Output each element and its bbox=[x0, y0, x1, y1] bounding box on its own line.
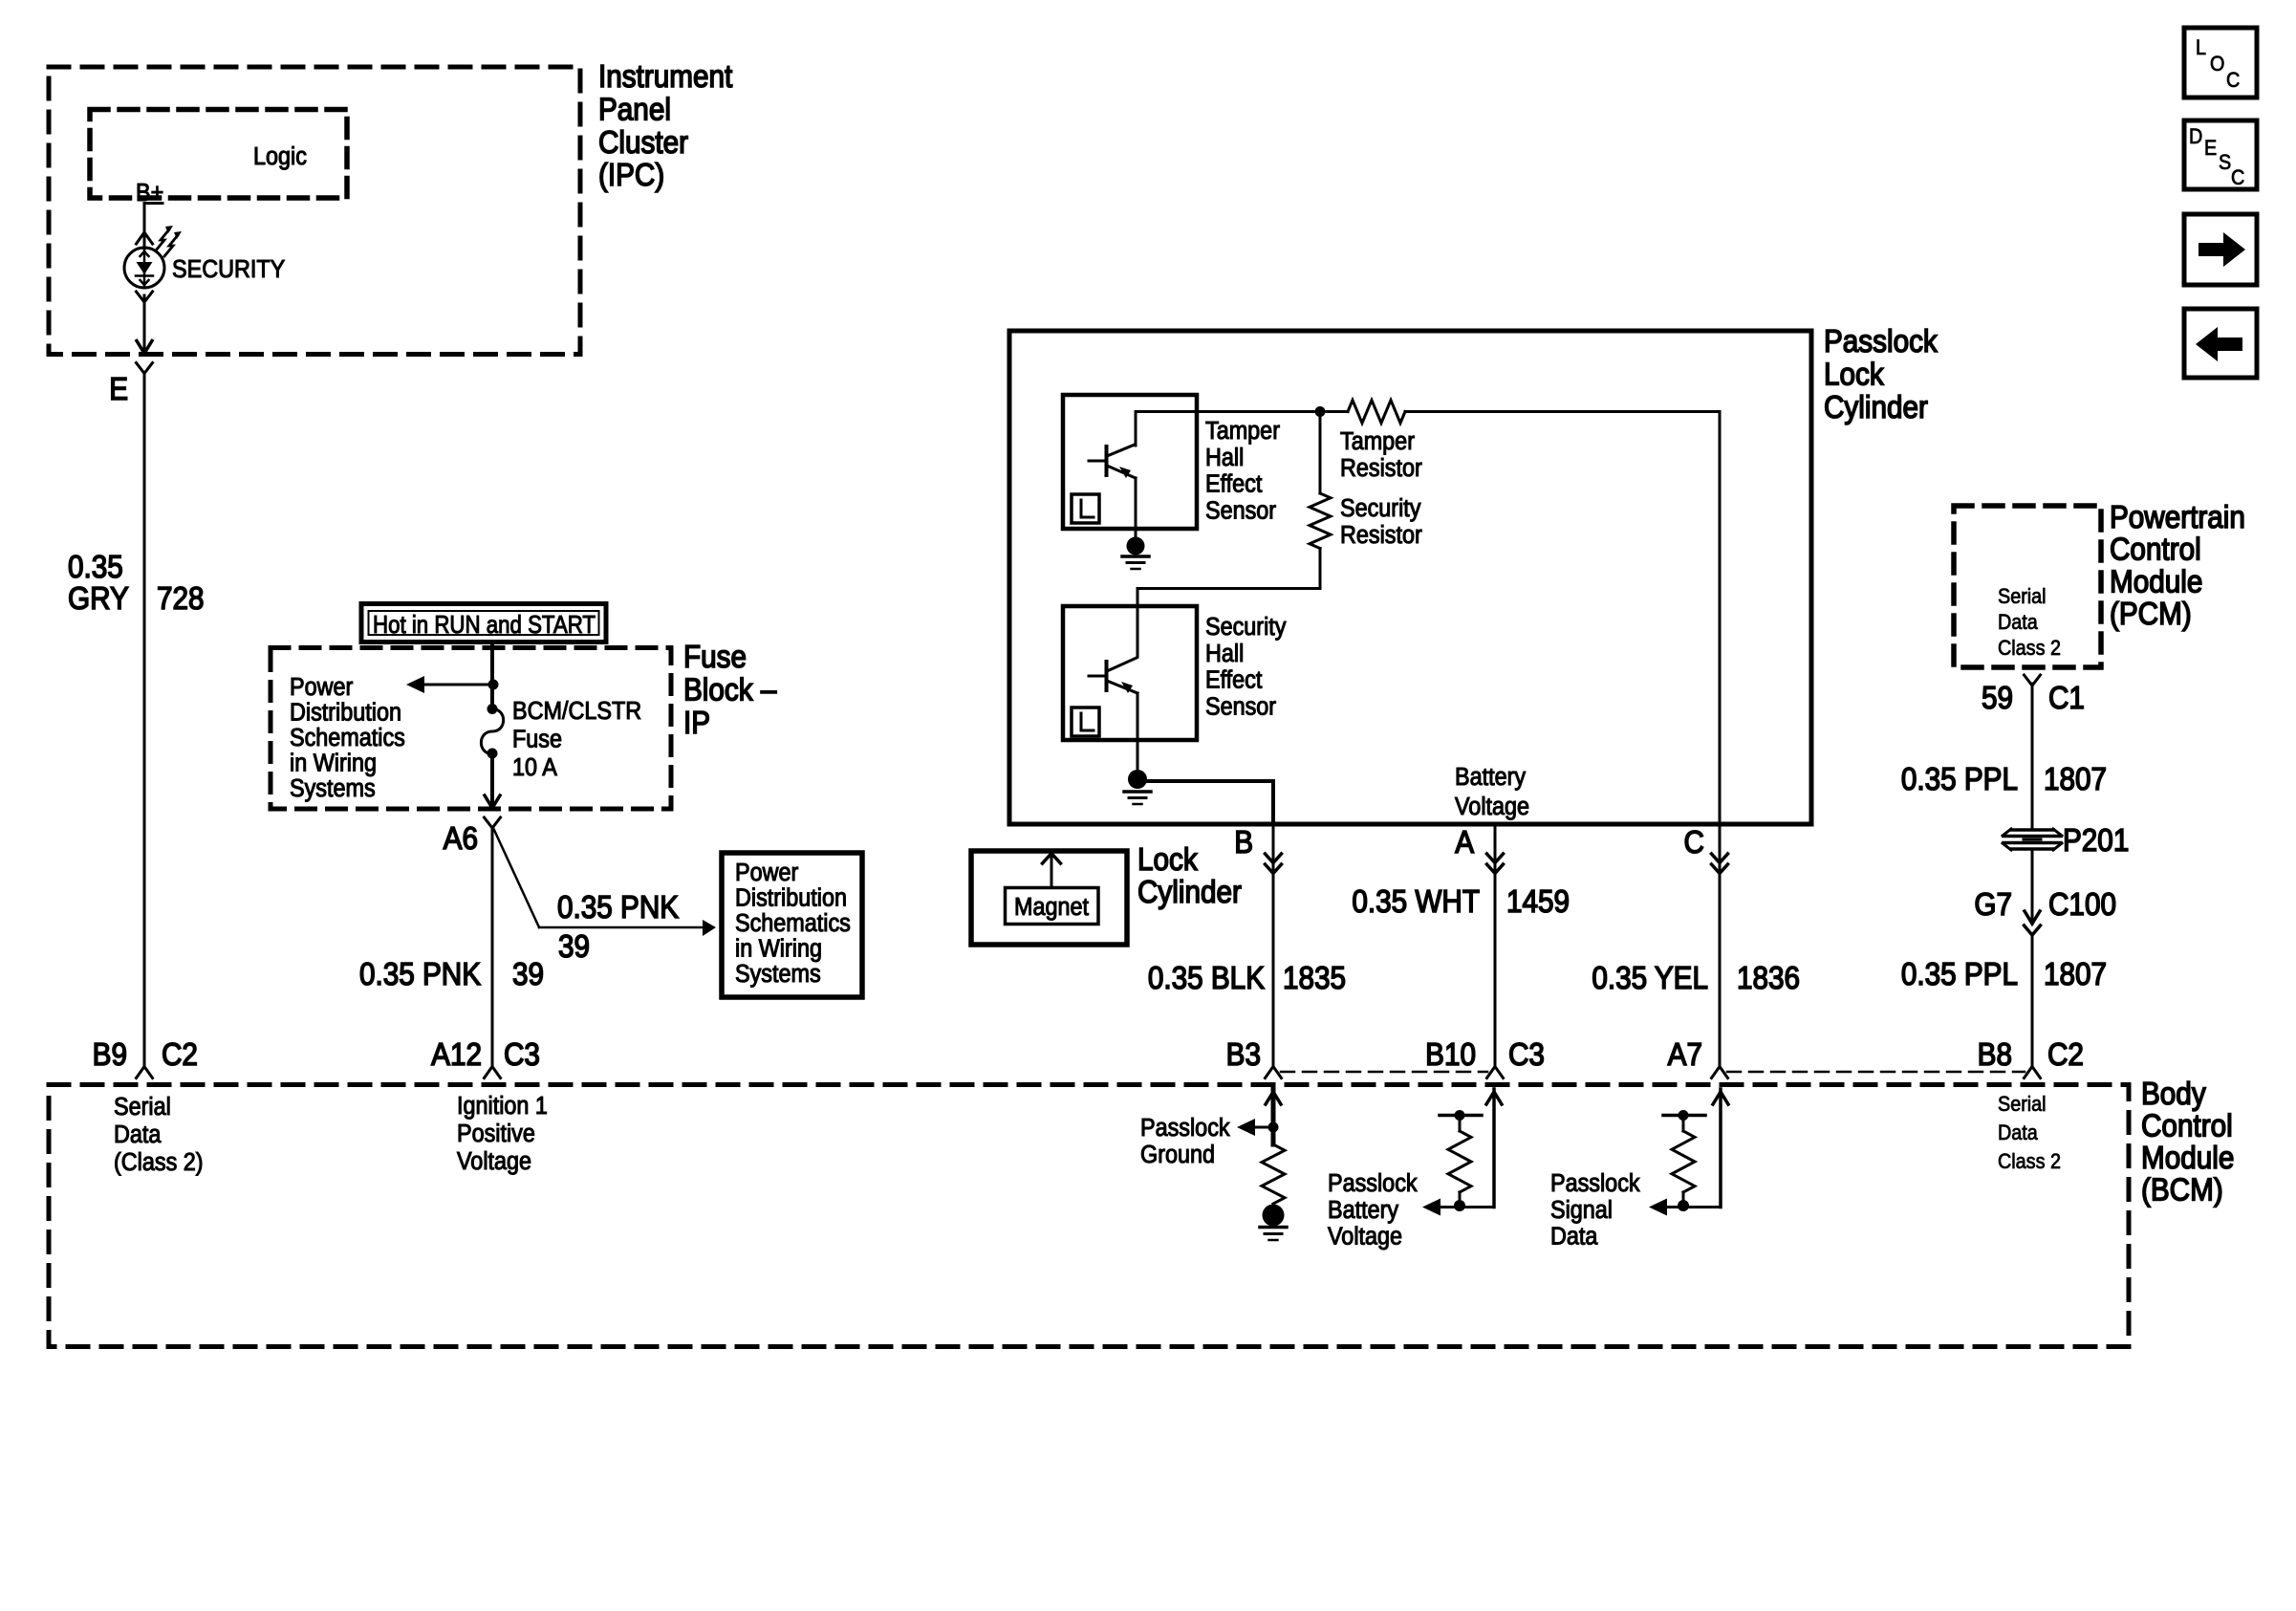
svg-text:Schematics: Schematics bbox=[290, 725, 405, 751]
svg-text:SECURITY: SECURITY bbox=[172, 256, 285, 283]
svg-text:Sensor: Sensor bbox=[1205, 497, 1276, 524]
svg-text:Systems: Systems bbox=[735, 961, 821, 988]
arrow to Passlock Signal Data label bbox=[1667, 1206, 1721, 1208]
svg-text:Cluster: Cluster bbox=[598, 124, 688, 160]
arrow into fuse block bottom edge bbox=[485, 795, 500, 808]
Power Distribution Schematics box bbox=[722, 853, 862, 997]
svg-text:Block –: Block – bbox=[683, 672, 777, 708]
node junction tamper/resistors bbox=[1315, 406, 1326, 417]
wire security ground to pin B bbox=[1137, 779, 1273, 783]
svg-text:A12: A12 bbox=[431, 1037, 482, 1073]
transistor Q1 tamper hall sensor bbox=[1105, 446, 1109, 475]
Magnet inner box bbox=[1006, 888, 1099, 925]
svg-text:1459: 1459 bbox=[1506, 884, 1570, 920]
svg-text:Class 2: Class 2 bbox=[1998, 637, 2061, 660]
terminal chevron below indicator bbox=[137, 292, 153, 302]
svg-text:Control: Control bbox=[2110, 532, 2201, 567]
security hall effect sensor box bbox=[1063, 606, 1197, 740]
svg-text:Ground: Ground bbox=[1140, 1142, 1215, 1168]
svg-text:Hot in RUN and START: Hot in RUN and START bbox=[373, 610, 596, 639]
svg-text:Positive: Positive bbox=[457, 1121, 535, 1147]
terminal chevron above indicator bbox=[137, 232, 153, 244]
wire tamper resistor to C drop bbox=[1405, 410, 1720, 413]
svg-text:1836: 1836 bbox=[1737, 961, 1800, 996]
L code box (security sensor) bbox=[1072, 708, 1099, 736]
svg-text:C: C bbox=[1684, 825, 1704, 860]
svg-text:C2: C2 bbox=[162, 1037, 198, 1073]
Magnet outer box bbox=[971, 851, 1127, 945]
svg-text:1835: 1835 bbox=[1283, 961, 1346, 996]
svg-text:Passlock: Passlock bbox=[1328, 1170, 1418, 1197]
svg-text:0.35 YEL: 0.35 YEL bbox=[1592, 961, 1708, 996]
IPC Logic dashed box bbox=[90, 110, 347, 199]
wire tamper collector to junction bbox=[1136, 410, 1313, 413]
svg-text:B8: B8 bbox=[1978, 1037, 2012, 1073]
arrow magnet upward bbox=[1051, 855, 1053, 888]
svg-text:Data: Data bbox=[114, 1121, 162, 1148]
svg-text:(BCM): (BCM) bbox=[2141, 1172, 2223, 1208]
svg-text:Module: Module bbox=[2141, 1141, 2234, 1176]
pin A12 chevron bbox=[485, 1067, 501, 1078]
svg-text:Cylinder: Cylinder bbox=[1824, 390, 1928, 425]
svg-text:Battery: Battery bbox=[1328, 1197, 1399, 1224]
svg-text:in Wiring: in Wiring bbox=[290, 750, 377, 776]
svg-text:Ignition 1: Ignition 1 bbox=[457, 1093, 548, 1120]
module IPC dashed box bbox=[49, 67, 580, 355]
wire branch horizontal with arrow to Power Distribution bbox=[539, 926, 704, 929]
svg-text:C100: C100 bbox=[2048, 887, 2116, 923]
svg-text:E: E bbox=[2204, 137, 2217, 160]
svg-text:1807: 1807 bbox=[2044, 957, 2107, 992]
svg-text:Security: Security bbox=[1340, 495, 1421, 522]
svg-text:0.35 BLK: 0.35 BLK bbox=[1148, 961, 1265, 996]
wire C vertical inside box bbox=[1719, 412, 1722, 825]
Fuse Block dashed box bbox=[271, 648, 671, 810]
tamper hall effect sensor box bbox=[1063, 395, 1197, 529]
svg-text:Serial: Serial bbox=[1998, 1093, 2047, 1116]
icon LOC box bbox=[2184, 28, 2257, 98]
svg-text:D: D bbox=[2189, 125, 2202, 148]
svg-text:59: 59 bbox=[1982, 681, 2013, 716]
svg-text:P201: P201 bbox=[2063, 823, 2129, 859]
svg-text:Body: Body bbox=[2141, 1077, 2206, 1112]
icon forward-arrow box bbox=[2184, 214, 2257, 285]
fuse BCM/CLSTR 10 A symbol bbox=[487, 704, 498, 714]
svg-text:Class 2: Class 2 bbox=[1998, 1150, 2061, 1173]
BCM passlock ground leg bbox=[1271, 1089, 1276, 1144]
node junction passlock ground bbox=[1268, 1122, 1279, 1133]
svg-text:0.35 PPL: 0.35 PPL bbox=[1901, 762, 2018, 797]
indicator lamp SECURITY (LED symbol) bbox=[124, 248, 164, 288]
svg-text:Effect: Effect bbox=[1205, 471, 1262, 498]
pin B3 chevron bbox=[1266, 1067, 1282, 1078]
svg-text:Logic: Logic bbox=[253, 143, 307, 170]
svg-text:(PCM): (PCM) bbox=[2110, 597, 2192, 632]
arrow to Passlock Ground label bbox=[1255, 1126, 1273, 1129]
wire PPL lower bbox=[2031, 935, 2034, 1067]
svg-text:39: 39 bbox=[558, 929, 590, 965]
Hot in RUN and START box bbox=[361, 604, 606, 642]
svg-text:0.35 PNK: 0.35 PNK bbox=[359, 957, 481, 992]
transistor Q2 security hall sensor bbox=[1105, 662, 1109, 690]
BCM passlock battery voltage leg bbox=[1492, 1089, 1496, 1208]
wire branch diagonal to PNK 39 tap bbox=[494, 829, 540, 927]
ground security sensor bbox=[1128, 770, 1147, 789]
svg-text:Effect: Effect bbox=[1205, 667, 1262, 694]
L code box (tamper sensor) bbox=[1072, 494, 1099, 523]
junction dot feed bbox=[488, 680, 499, 690]
svg-text:B10: B10 bbox=[1425, 1037, 1476, 1073]
wire indicator to IPC edge bbox=[143, 295, 146, 352]
svg-text:L: L bbox=[2196, 36, 2206, 59]
svg-text:0.35 PNK: 0.35 PNK bbox=[557, 890, 679, 925]
icon DESC box bbox=[2184, 120, 2257, 189]
BCM passlock signal data leg bbox=[1719, 1089, 1722, 1208]
svg-text:Instrument: Instrument bbox=[598, 59, 732, 95]
svg-text:Tamper: Tamper bbox=[1205, 418, 1280, 445]
svg-text:Powertrain: Powertrain bbox=[2110, 500, 2245, 535]
resistor passlock battery voltage bbox=[1440, 1114, 1482, 1118]
svg-text:Module: Module bbox=[2110, 564, 2202, 599]
svg-text:Fuse: Fuse bbox=[683, 640, 747, 675]
svg-text:Serial: Serial bbox=[1998, 585, 2047, 608]
svg-text:0.35 WHT: 0.35 WHT bbox=[1352, 884, 1480, 920]
svg-text:10 A: 10 A bbox=[512, 754, 557, 781]
module Passlock Lock Cylinder box bbox=[1009, 331, 1811, 824]
svg-text:S: S bbox=[2219, 151, 2231, 174]
svg-text:C2: C2 bbox=[2047, 1037, 2084, 1073]
svg-text:Systems: Systems bbox=[290, 775, 376, 802]
svg-text:Sensor: Sensor bbox=[1205, 693, 1276, 720]
svg-text:Voltage: Voltage bbox=[1328, 1224, 1402, 1251]
svg-text:in Wiring: in Wiring bbox=[735, 935, 822, 962]
svg-text:A6: A6 bbox=[444, 821, 478, 857]
svg-text:B: B bbox=[1234, 825, 1253, 860]
svg-text:728: 728 bbox=[157, 581, 205, 617]
pin B8 chevron bbox=[2025, 1067, 2041, 1078]
svg-text:(Class 2): (Class 2) bbox=[114, 1149, 204, 1176]
svg-text:0.35 PPL: 0.35 PPL bbox=[1901, 957, 2018, 992]
svg-text:Panel: Panel bbox=[598, 92, 671, 127]
wire security resistor to security sensor bbox=[1319, 549, 1322, 589]
svg-text:Cylinder: Cylinder bbox=[1137, 875, 1242, 910]
pin A6 chevron bbox=[485, 817, 501, 828]
svg-text:Fuse: Fuse bbox=[512, 726, 562, 752]
svg-text:Power: Power bbox=[290, 674, 353, 701]
wire PPL middle bbox=[2031, 850, 2034, 924]
svg-text:Data: Data bbox=[1998, 611, 2038, 634]
connector C100 double chevron bbox=[2025, 911, 2040, 924]
wire B+ to indicator bbox=[144, 202, 162, 205]
svg-text:IP: IP bbox=[683, 705, 710, 740]
svg-text:B9: B9 bbox=[93, 1037, 127, 1073]
pin E chevron bbox=[137, 363, 153, 374]
svg-text:Control: Control bbox=[2141, 1108, 2233, 1143]
resistor Security Resistor (vertical) bbox=[1319, 412, 1322, 494]
svg-text:Voltage: Voltage bbox=[1455, 794, 1529, 820]
svg-text:Data: Data bbox=[1550, 1224, 1598, 1251]
node junction signal data resistor bbox=[1678, 1200, 1689, 1211]
pin B9 chevron bbox=[137, 1067, 153, 1078]
svg-text:0.35: 0.35 bbox=[68, 550, 123, 585]
wire PPL upper bbox=[2031, 684, 2034, 828]
pin 59 chevron bbox=[2025, 675, 2041, 686]
svg-text:C: C bbox=[2231, 166, 2244, 189]
svg-text:(IPC): (IPC) bbox=[598, 158, 664, 193]
svg-text:C1: C1 bbox=[2048, 681, 2085, 716]
svg-text:Power: Power bbox=[735, 860, 798, 886]
svg-text:Magnet: Magnet bbox=[1014, 894, 1089, 921]
indicator light rays bbox=[156, 229, 169, 250]
arrow into IPC bottom edge bbox=[137, 341, 152, 354]
svg-text:C3: C3 bbox=[1508, 1037, 1545, 1073]
resistor passlock ground bbox=[1262, 1144, 1285, 1204]
svg-text:A: A bbox=[1455, 825, 1474, 860]
connector link A7-B8 thin dashed bbox=[1727, 1071, 2025, 1074]
svg-text:E: E bbox=[109, 372, 128, 407]
module BCM dashed box bbox=[49, 1085, 2129, 1347]
svg-text:Distribution: Distribution bbox=[290, 699, 401, 726]
node junction battery voltage resistor bbox=[1454, 1200, 1465, 1211]
svg-text:Signal: Signal bbox=[1550, 1197, 1613, 1224]
svg-text:Passlock: Passlock bbox=[1140, 1115, 1230, 1142]
wire 728 GRY vertical bbox=[143, 373, 146, 1067]
ground BCM (passlock ground) bbox=[1263, 1205, 1285, 1227]
svg-text:Schematics: Schematics bbox=[735, 910, 851, 937]
svg-text:Battery: Battery bbox=[1455, 764, 1527, 791]
svg-text:Serial: Serial bbox=[114, 1094, 171, 1121]
svg-text:Resistor: Resistor bbox=[1340, 522, 1422, 549]
icon back-arrow box bbox=[2184, 309, 2257, 378]
pin B10 chevron bbox=[1487, 1067, 1504, 1078]
connector P201 grommet symbol bbox=[2011, 828, 2053, 832]
svg-text:B3: B3 bbox=[1226, 1037, 1261, 1073]
svg-text:39: 39 bbox=[512, 957, 544, 992]
pin A7 chevron bbox=[1712, 1067, 1728, 1078]
svg-text:Hall: Hall bbox=[1205, 445, 1244, 471]
svg-text:Resistor: Resistor bbox=[1340, 455, 1422, 482]
svg-text:Voltage: Voltage bbox=[457, 1148, 531, 1175]
resistor Tamper Resistor (horizontal) bbox=[1348, 401, 1405, 424]
ground tamper sensor bbox=[1127, 537, 1145, 555]
connector link B3-B10 thin dashed bbox=[1281, 1071, 1487, 1074]
svg-text:Lock: Lock bbox=[1824, 357, 1884, 392]
svg-text:O: O bbox=[2210, 53, 2224, 76]
svg-text:Passlock: Passlock bbox=[1550, 1170, 1640, 1197]
wire feed from Hot box bbox=[490, 642, 494, 709]
svg-text:Distribution: Distribution bbox=[735, 884, 847, 911]
svg-text:A7: A7 bbox=[1668, 1037, 1702, 1073]
module PCM dashed box bbox=[1954, 506, 2101, 667]
arrow to power distribution (left) bbox=[425, 684, 493, 686]
svg-text:C: C bbox=[2226, 69, 2240, 92]
svg-text:Tamper: Tamper bbox=[1340, 428, 1415, 455]
svg-text:C3: C3 bbox=[504, 1037, 540, 1073]
svg-text:Security: Security bbox=[1205, 614, 1287, 641]
svg-text:Data: Data bbox=[1998, 1121, 2038, 1144]
svg-text:BCM/CLSTR: BCM/CLSTR bbox=[512, 698, 641, 725]
svg-text:G7: G7 bbox=[1974, 887, 2012, 923]
wire fuse to A6 bbox=[490, 753, 494, 806]
svg-text:1807: 1807 bbox=[2044, 762, 2107, 797]
svg-text:GRY: GRY bbox=[68, 581, 129, 617]
arrow to Passlock Battery Voltage label bbox=[1440, 1206, 1494, 1208]
svg-text:Passlock: Passlock bbox=[1824, 324, 1938, 359]
resistor passlock signal data bbox=[1663, 1114, 1705, 1118]
svg-text:Lock: Lock bbox=[1137, 842, 1198, 878]
wire A6 to A12 bbox=[491, 828, 494, 1067]
svg-text:Hall: Hall bbox=[1205, 641, 1244, 667]
